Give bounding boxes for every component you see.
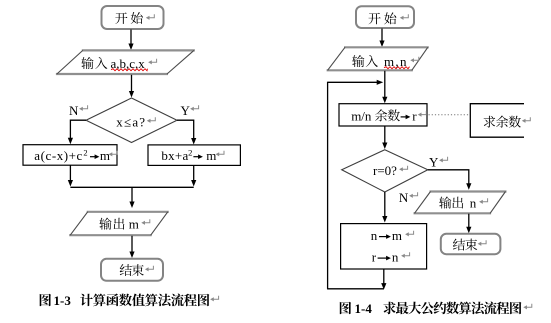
flow wire: loop bottom horizontal (right) — [327, 288, 384, 290]
io: output 输出 m (left) — [69, 212, 169, 235]
svg-text:a(c-x)+c: a(c-x)+c — [34, 148, 83, 163]
flow arrow: left process down — [68, 165, 73, 186]
terminator: end 结束 (left chart) — [101, 259, 163, 281]
flow arrow: merge to output (left) — [129, 187, 134, 208]
process: bx+a²→m — [148, 145, 240, 166]
svg-text:n: n — [371, 228, 378, 243]
io: output 输出 n (right) — [414, 192, 507, 214]
flow arrow: swap box to loop corner (right) — [381, 269, 386, 289]
svg-text:r: r — [372, 250, 377, 265]
branch label N (right) — [399, 190, 418, 205]
flow arrow: N branch down (right) — [382, 192, 387, 223]
terminator: start 开始 (right chart) — [356, 6, 414, 28]
svg-text:Y: Y — [429, 155, 439, 170]
svg-text:x≤a?: x≤a? — [116, 115, 146, 130]
io: input 输入 a,b,c,x (left) — [56, 50, 195, 74]
caption: 图1-3 计算函数值算法流程图 — [40, 293, 219, 308]
svg-text:n: n — [470, 196, 477, 211]
terminator: start 开始 (left chart) — [102, 6, 164, 29]
process: m/n 余数→r — [339, 104, 427, 126]
flow arrow: remainder to decision (right) — [382, 127, 387, 150]
svg-text:n: n — [392, 250, 399, 265]
caption: 图1-4 求最大公约数算法流程图 — [340, 301, 532, 316]
svg-text:m: m — [392, 228, 402, 243]
flow arrow: output to end (right) — [466, 214, 471, 234]
svg-text:bx+a: bx+a — [161, 148, 188, 163]
process: n→m / r→n (swap box) — [341, 224, 427, 269]
svg-text:r=0?: r=0? — [373, 163, 397, 178]
flow wire: input to remainder (right) — [382, 71, 387, 104]
svg-text:m/n: m/n — [351, 108, 372, 123]
svg-text:m: m — [100, 148, 110, 163]
process: a(c-x)+c²→m — [23, 145, 117, 166]
flow arrow: start to input (right) — [379, 29, 384, 48]
io: input 输入 m,n (right) — [327, 47, 429, 70]
flow wire: Y branch (right) — [428, 170, 472, 190]
svg-text:m: m — [206, 148, 216, 163]
flow arrow: input to decision (left) — [129, 75, 134, 98]
decision: r=0? (right) — [342, 150, 428, 192]
flow wire: loop left vertical (right) — [327, 82, 329, 289]
svg-text:m: m — [129, 217, 139, 232]
decision: x≤a? (left) — [86, 98, 177, 143]
svg-text:1-4: 1-4 — [355, 301, 373, 316]
flow wire: N branch (left) — [68, 120, 86, 144]
svg-text:1-3: 1-3 — [54, 293, 72, 308]
dotted connector: remainder to comment — [429, 114, 470, 116]
branch label Y (right) — [429, 155, 448, 170]
flow arrow: right process down — [191, 166, 196, 187]
svg-text:a,b,c,x: a,b,c,x — [111, 56, 146, 71]
terminator: end 结束 (right chart) — [441, 234, 501, 254]
svg-text:N: N — [399, 190, 409, 205]
svg-text:m,n: m,n — [384, 54, 408, 69]
flow arrow: loop re-entry (right) — [328, 80, 384, 85]
svg-text:2: 2 — [83, 148, 87, 158]
comment box: 求余数 — [470, 104, 530, 138]
flow arrow: start to input (left) — [128, 30, 133, 51]
svg-text:r: r — [412, 108, 417, 123]
branch label N (left) — [69, 103, 88, 118]
flow arrow: output to end (left) — [129, 236, 134, 258]
flow wire: Y branch (left) — [177, 120, 196, 144]
svg-text:2: 2 — [188, 148, 192, 158]
svg-text:N: N — [69, 103, 79, 118]
branch label Y (left) — [181, 103, 199, 118]
svg-text:Y: Y — [181, 103, 191, 118]
flow wire: merge horizontal (left) — [70, 186, 193, 188]
